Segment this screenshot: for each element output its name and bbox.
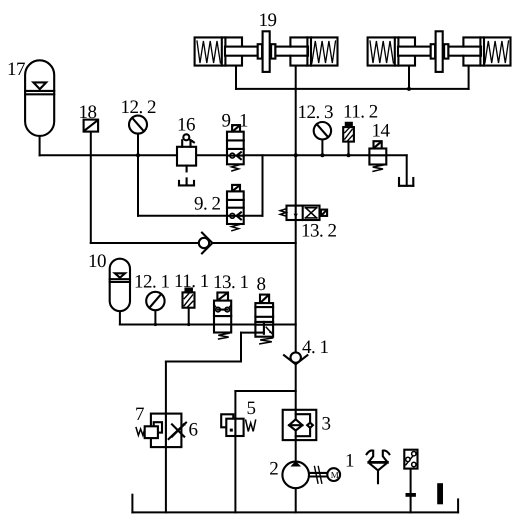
wire: stem of pressure switch 18 and branch down to check valve line [90,132,92,243]
wire: riser from 9.2 line up to distribution bus [262,155,264,216]
svg-text:8: 8 [257,274,266,295]
accumulator 10 shell [110,259,130,312]
wire: brake supply bus under cylinders [236,88,469,90]
svg-text:10: 10 [88,251,106,272]
left brake pad [258,44,262,58]
wire: return line horizontal to valve 7 [166,361,241,363]
wire: valve 5 down to tank [234,436,236,512]
check block 3 [283,410,317,440]
wire: stem of sensor 11.1 [188,308,190,325]
accumulator 17 shell [25,60,54,136]
left spring cylinder body [195,37,242,65]
brake actuator assembly 19 (left): spring cylinders and disc [195,31,338,72]
wire: drop from left cylinder of assembly 19 left [235,66,237,89]
svg-text:4. 1: 4. 1 [302,337,329,358]
solenoid valve 9.1 [227,125,244,171]
wire: main vertical line from valve 13.2 down to check valve 4.1 [295,220,297,352]
svg-text:9. 2: 9. 2 [194,193,221,214]
svg-text:5: 5 [247,398,256,419]
left push rod [225,47,258,56]
right spring cylinder body [290,37,337,65]
pressure gauge 12.3 [314,122,331,139]
pump 2 [282,461,309,488]
pressure switch 18 [84,120,99,132]
left spring [197,41,220,63]
svg-text:1: 1 [345,451,354,472]
brake disc [263,31,270,72]
right brake pad [271,44,275,58]
accumulator 17 separator lines [25,90,54,92]
wire: main vertical line from check valve 4.1 to block 3 [295,364,297,410]
level gauge [404,450,417,497]
svg-text:6: 6 [189,419,198,440]
wire: main vertical line from block 3 to pump 2 [295,440,297,462]
wire: accumulator 17 outlet stem [39,136,41,155]
drain symbol right end [399,178,413,186]
wire: drop from left cylinder of assembly 19 right [408,66,410,89]
svg-text:12. 1: 12. 1 [134,272,170,293]
check valve (mid left line) [199,233,213,254]
svg-text:2: 2 [269,459,278,480]
wire: bus right end elbow down to drain [406,155,408,186]
wire: check valve line right part to main line [212,242,295,244]
wire: stem of gauge 12.2 and branch down to valve 9.2 line [137,134,139,216]
svg-text:7: 7 [135,404,144,425]
wire: valve 8 left port elbow horizontal [241,332,255,334]
tank right wall [457,499,459,512]
solenoid valve 8 [255,295,273,344]
oil level mark bar [437,483,443,504]
pilot valve 16 [177,134,196,185]
svg-text:M: M [331,470,339,480]
motor 1 with shaft [309,467,340,484]
relief valve 14 [369,141,386,171]
wire: branch from main line to valve 5 [235,390,295,392]
svg-text:12. 3: 12. 3 [298,102,334,123]
solenoid valve 9.2 [227,185,244,231]
throttle-relief unit box (items 6 and 7) [136,414,186,448]
right piston plates [306,37,308,65]
wire: stem of gauge 12.3 [321,139,323,155]
solenoid valve 13.1 [214,293,231,340]
breather / air filter [367,450,390,483]
svg-text:14: 14 [372,121,391,142]
wire: stem of gauge 12.1 [154,310,156,324]
left piston plates [221,37,223,65]
right spring [312,41,336,63]
solenoid valve 5 [221,414,255,436]
svg-text:11. 1: 11. 1 [174,271,209,292]
wire: stem of sensor 11.2 [348,142,350,156]
variable throttle 6 [172,424,184,436]
wire: valve 9.2 right port to riser [244,215,263,217]
wire: check valve line left part [91,242,199,244]
svg-text:19: 19 [259,10,277,31]
wire: level gauge stem to tank [410,468,412,512]
svg-text:18: 18 [79,102,97,123]
accumulator 10 gas triangle [115,273,125,277]
svg-text:12. 2: 12. 2 [121,97,157,118]
tank left wall [131,495,133,513]
relief valve 7 body squares [154,422,162,432]
wire: main vertical line from brake bus down to valve 13.2 [295,89,297,206]
check valve 4.1 on main line [284,352,307,364]
wire: branch down into valve 5 [234,391,236,419]
wire: drop from right cylinder of assembly 19 right [468,66,470,89]
solenoid valve 13.2 on main line [280,206,327,220]
wire: return line down into valve 7 box [165,362,167,414]
wire: lower manifold line [120,324,296,326]
svg-text:3: 3 [322,413,331,434]
pressure sensor 11.1 [183,289,195,308]
svg-text:13. 1: 13. 1 [213,272,249,293]
tank bottom line [132,511,458,513]
svg-text:13. 2: 13. 2 [301,221,337,242]
accumulator 10 separator lines [110,278,130,280]
wire: line from branch to valve 9.2 left port [138,215,227,217]
wire: drop from right cylinder of assembly 19 left / main line top [295,66,297,89]
svg-text:9. 1: 9. 1 [222,111,249,132]
relief valve 7 spring [136,428,145,436]
wire: valve 7 box to tank [165,447,167,512]
right push rod [275,47,308,56]
junction dots [136,87,411,326]
pressure sensor 11.2 [343,123,354,142]
svg-text:17: 17 [7,59,25,80]
brake actuator assembly 19 (right), same as left shifted +173 [368,31,511,72]
valve 16 drain stem and symbol [186,166,188,172]
wire: accumulator 10 outlet stem [119,311,121,324]
wire: upper distribution bus [40,154,407,156]
wire: valve 8 return drop [240,333,242,362]
svg-text:11. 2: 11. 2 [343,101,378,122]
pressure gauge 12.2 [129,116,147,134]
pressure gauge 12.1 [146,292,164,310]
accumulator 17 gas triangle [33,82,46,89]
wire: pump 2 suction line to tank [295,488,297,512]
svg-text:16: 16 [177,115,195,136]
